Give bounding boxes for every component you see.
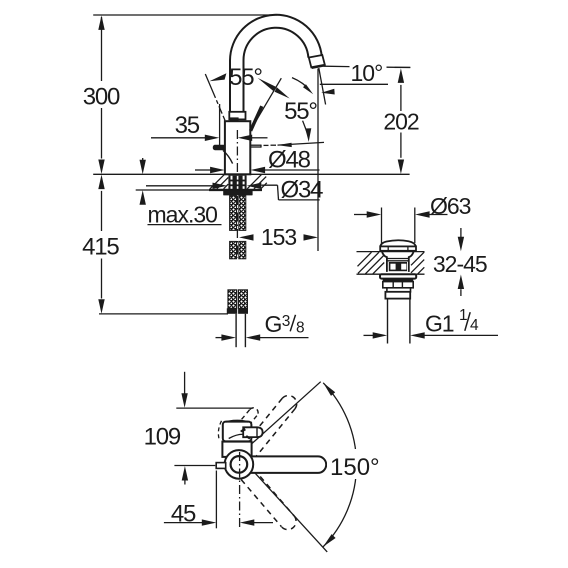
collar below riser [229, 112, 245, 120]
svg-text:1: 1 [459, 307, 467, 324]
swivel boundary line lower [252, 470, 327, 552]
svg-text:max.30: max.30 [148, 201, 218, 227]
dimension 45 [164, 519, 273, 525]
lever nub (left, side view) [213, 145, 233, 164]
hose end fittings (braid + nuts) [227, 290, 248, 314]
dimension G1 1/4 [364, 332, 499, 338]
drain counter lines [357, 252, 425, 275]
drain flange [380, 274, 416, 278]
double arrowhead crossing L2 [258, 78, 276, 91]
inner circle [231, 456, 248, 473]
black tab on collar [230, 117, 239, 121]
arrowhead A1 on L1 [209, 73, 226, 81]
svg-text:3: 3 [282, 313, 290, 330]
drain cap dome [380, 240, 416, 246]
mounting nut [223, 191, 252, 196]
svg-text:Ø63: Ø63 [430, 193, 471, 219]
overflow window box [389, 262, 407, 271]
counter bottom line [136, 189, 209, 191]
locknut step [387, 288, 411, 292]
faucet body [225, 121, 250, 174]
leader from 55deg label 2 [303, 121, 308, 134]
aerator tip [309, 55, 325, 68]
swivel boundary line upper [251, 382, 321, 445]
svg-text:415: 415 [82, 234, 119, 261]
svg-text:35: 35 [175, 112, 200, 139]
outer circle (swivel base) [225, 450, 254, 479]
locknut [383, 279, 413, 288]
dimension 415 [98, 175, 104, 314]
svg-text:Ø34: Ø34 [281, 177, 324, 204]
dashed arc left of handle [218, 421, 221, 441]
counter top line [93, 173, 409, 175]
lever tip extension line [215, 471, 217, 529]
dimension G3/8 [216, 334, 309, 340]
neck internal band [387, 259, 409, 261]
svg-text:G1: G1 [425, 311, 454, 337]
top reference line [93, 14, 277, 16]
supply pipe below fittings [236, 314, 245, 347]
lever closed position lines (right) [250, 145, 261, 148]
body square (top view) [222, 442, 251, 457]
grip root dark mark [240, 428, 246, 433]
dimension 32-45 [458, 228, 464, 296]
dimension D48 [195, 167, 320, 173]
braided hose lower section [230, 241, 246, 258]
dashed spout upper position [241, 396, 297, 460]
tailpipe walls [388, 299, 410, 344]
svg-text:202: 202 [383, 109, 419, 135]
deck hatch left [210, 175, 228, 189]
riser pipe walls [230, 61, 244, 112]
150deg label background [327, 449, 385, 479]
svg-text:55°: 55° [284, 98, 317, 125]
threaded shank [228, 175, 246, 189]
braided hose upper section [230, 196, 246, 231]
body center line (dash-dot) [236, 130, 238, 258]
leader arrowhead pointing left [277, 143, 292, 147]
line L2 (lever open position, right) [250, 78, 281, 130]
dimension 300 [98, 15, 104, 174]
tilted aerator axis (10deg) [319, 68, 326, 105]
10deg leader line [320, 83, 388, 85]
svg-text:Ø48: Ø48 [268, 146, 311, 173]
svg-text:109: 109 [144, 423, 181, 450]
dashed spout lower position [241, 469, 296, 530]
handle base (top view) [223, 421, 252, 442]
D63 extension lines [382, 208, 415, 244]
deck hatch right [247, 175, 267, 189]
svg-text:10°: 10° [351, 60, 383, 86]
lever raised (thick band) [251, 106, 262, 131]
center extension line (dash-dot) [239, 452, 241, 528]
drain hatch left [358, 252, 385, 274]
svg-text:32-45: 32-45 [433, 251, 487, 277]
left pointing arrowhead at tip lines [321, 89, 335, 95]
spout tube (arc annulus) [230, 15, 322, 61]
aerator bottom extension line [324, 65, 350, 67]
109 top reference line [176, 407, 253, 409]
svg-text:55°: 55° [229, 64, 262, 91]
extension line for 35 (lever tip) [219, 104, 221, 146]
spout tip angle arc [292, 78, 310, 91]
black notch under handle base [236, 442, 245, 444]
svg-text:150°: 150° [330, 454, 380, 481]
lever tip (top view, pointing left) [216, 463, 226, 469]
spout stadium (top view) [239, 456, 326, 473]
lever axis dash-dot leader [264, 144, 277, 146]
150deg arc [323, 383, 356, 547]
dimension 35 [151, 135, 268, 141]
lever front edge tab (top view) [233, 420, 242, 422]
handle grip (top view) [243, 427, 262, 437]
dimension 153 [239, 234, 318, 240]
svg-text:8: 8 [296, 319, 304, 336]
max.30 dimension [140, 158, 146, 205]
dimension 109 [181, 372, 188, 485]
svg-text:45: 45 [171, 500, 196, 527]
drain neck [382, 251, 414, 272]
dimension D63 [354, 211, 448, 217]
svg-text:300: 300 [83, 84, 120, 111]
dashed grip rotated position [237, 408, 259, 432]
svg-text:153: 153 [261, 224, 297, 250]
drain hatch right [411, 252, 424, 274]
leader line to 55deg (right) [278, 142, 325, 145]
tail collar [385, 292, 410, 299]
grip bottom-left notch [246, 436, 250, 439]
line L1 (lever open position, left) [205, 74, 225, 120]
dimension D34 [146, 183, 320, 200]
bottom reference line (hose end) [99, 313, 228, 315]
counter bottom line thick segment [209, 189, 262, 191]
dimension 202 [395, 67, 411, 174]
vertical stream line [317, 69, 319, 252]
109 lower reference line [174, 465, 215, 467]
drain cap rim [380, 246, 416, 250]
svg-text:G: G [265, 311, 282, 337]
